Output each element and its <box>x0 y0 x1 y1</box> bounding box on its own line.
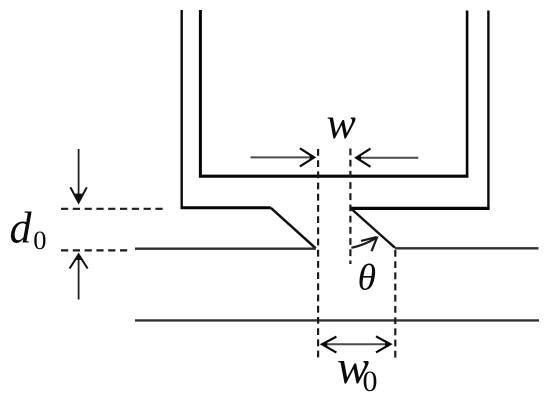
svg-text:w: w <box>327 99 357 148</box>
svg-text:0: 0 <box>33 225 46 255</box>
svg-text:0: 0 <box>363 365 378 398</box>
svg-text:θ: θ <box>358 257 376 298</box>
svg-text:d: d <box>10 204 33 253</box>
